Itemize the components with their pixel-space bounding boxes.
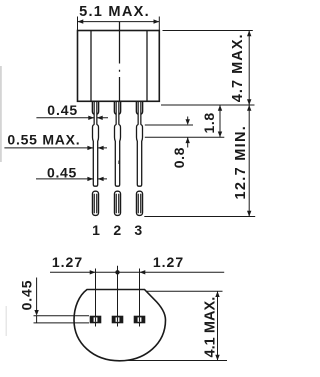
svg-text:1.27: 1.27: [153, 254, 184, 270]
svg-text:0.45: 0.45: [19, 280, 35, 311]
dimension 1.8 line with arrows: [219, 105, 221, 137]
dimension 0.55 MAX leader and arrows: [4, 147, 107, 149]
dimension 5.1 MAX extension ticks: [78, 17, 160, 31]
dimension 0.45 upper leader and arrows: [36, 117, 108, 119]
svg-text:5.1 MAX.: 5.1 MAX.: [79, 4, 150, 20]
bottom view lead 3 center line: [139, 269, 141, 327]
lead 3 solder bump and lower 0.55 section: [137, 124, 143, 186]
dimension 0.45 lower leader and arrows: [36, 178, 107, 180]
lead 3 upper narrow section 0.45: [138, 101, 141, 125]
extension line lead tips bottom: [144, 216, 255, 218]
extension line B (bump bottom level): [145, 136, 225, 138]
svg-text:1.27: 1.27: [52, 254, 83, 270]
body centerline (dash-dot): [119, 22, 121, 101]
dimension 0.8 arrows (outside): [187, 117, 189, 148]
dimension 12.7 MIN line with arrows: [248, 105, 250, 217]
lead 1 wide shoulder section: [92, 101, 94, 114]
package body front view: [78, 31, 160, 102]
body inner edge left: [90, 31, 92, 102]
lead 2 wide shoulder section: [114, 101, 116, 114]
extension line C (bump top level): [145, 124, 193, 126]
svg-text:3: 3: [134, 222, 142, 238]
extension line body top right: [163, 30, 253, 32]
bottom view lead 1 center line: [95, 269, 97, 327]
svg-text:0.8: 0.8: [171, 147, 187, 168]
dimension 4.1 MAX line with arrows: [217, 291, 219, 360]
dimension 0.45 bottom view arrow stem: [36, 278, 38, 323]
lead 2 upper narrow section 0.45: [116, 101, 119, 125]
package body bottom view outline: [74, 290, 166, 361]
lead 1 upper narrow section 0.45: [94, 101, 97, 125]
lead 2 solder bump and lower 0.55 section: [115, 124, 121, 186]
dimension 1.27 line with arrows: [50, 271, 224, 273]
dimension 4.7 MAX line with arrows: [248, 31, 250, 106]
svg-text:12.7 MIN.: 12.7 MIN.: [233, 125, 249, 200]
extension line A (body bottom level): [161, 104, 255, 106]
svg-text:0.55 MAX.: 0.55 MAX.: [7, 131, 80, 147]
svg-text:4.1 MAX.: 4.1 MAX.: [202, 297, 218, 358]
bottom view lead 2 cross-section: [112, 316, 124, 324]
centerline dot inside lead 2: [117, 161, 119, 165]
svg-text:1: 1: [92, 222, 100, 238]
lead 1 solder bump and lower 0.55 section: [93, 124, 99, 186]
dimension 5.1 MAX line with arrows: [78, 21, 160, 23]
svg-text:2: 2: [113, 222, 121, 238]
body inner edge right: [146, 31, 148, 102]
lead 3 cut tip: [136, 191, 142, 215]
bottom view lead thickness extension lines: [34, 316, 90, 323]
dimension 4.1 MAX extension lines: [115, 291, 227, 360]
svg-text:4.7 MAX.: 4.7 MAX.: [230, 33, 246, 102]
lead 3 wide shoulder section: [136, 101, 138, 114]
svg-text:0.45: 0.45: [47, 165, 77, 181]
lead 1 cut tip: [92, 191, 98, 215]
svg-text:0.45: 0.45: [47, 102, 78, 118]
bottom view lead 3 cross-section: [134, 316, 146, 324]
bottom view lead 2 center line: [117, 266, 119, 327]
bottom view lead 1 cross-section: [90, 316, 102, 324]
lead 2 cut tip: [114, 191, 120, 215]
dimension 1.27 center dot: [115, 270, 119, 274]
scan artifact smudges (left edge): [0, 66, 7, 336]
svg-text:1.8: 1.8: [201, 112, 217, 133]
